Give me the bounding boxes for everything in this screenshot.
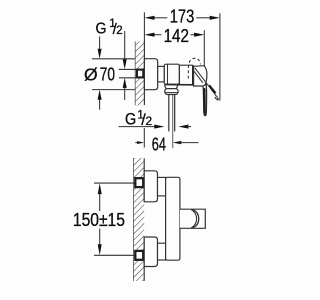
neck: [158, 66, 165, 82]
wall surface line: [143, 41, 145, 105]
lever hub: [194, 66, 207, 86]
wall hatch band: [133, 158, 144, 281]
svg-text:G: G: [125, 110, 136, 129]
svg-text:2: 2: [116, 25, 122, 37]
lever grip (lower part): [201, 84, 206, 116]
64 dimension: [135, 142, 139, 144]
outlet pipe down: [168, 95, 170, 132]
crescent arcs on outlet: [192, 210, 199, 228]
svg-text:173: 173: [170, 7, 195, 27]
dia 70 extension lines: [92, 58, 135, 60]
svg-text:G: G: [96, 21, 107, 38]
dia 70 dimension arrows: [99, 37, 101, 51]
inlet square fitting in wall: [137, 70, 143, 78]
body bottom merged line: [164, 84, 193, 86]
svg-text:64: 64: [152, 134, 166, 154]
outlet nut: [165, 89, 178, 95]
inlet pipe lines: [119, 68, 136, 70]
wall hatch band: [135, 41, 144, 105]
lever blade lines: [195, 68, 218, 98]
body section A: [164, 64, 179, 84]
escutcheon side view: [144, 59, 157, 90]
body section B: [179, 65, 193, 85]
dashed cartridge arc: [188, 58, 200, 78]
svg-text:70: 70: [100, 64, 115, 84]
necks: [158, 177, 166, 196]
svg-text:150±15: 150±15: [73, 210, 125, 230]
pipe stubs: [94, 182, 135, 184]
outlet block with no left edge: [180, 209, 205, 228]
svg-text:Ø: Ø: [84, 64, 98, 84]
G1/2 upper leader arrows: [124, 31, 126, 61]
escutcheons: [144, 171, 157, 202]
body: [166, 177, 180, 260]
dim 173: [144, 12, 220, 100]
dim 142: [153, 30, 205, 66]
150+-15 dimension: [99, 194, 101, 212]
square fittings in wall: [135, 178, 143, 187]
svg-text:142: 142: [164, 26, 189, 46]
outlet trapezoid under body: [165, 85, 167, 89]
cap line bold: [192, 65, 194, 85]
G1/2 bottom dimension: [119, 126, 157, 128]
